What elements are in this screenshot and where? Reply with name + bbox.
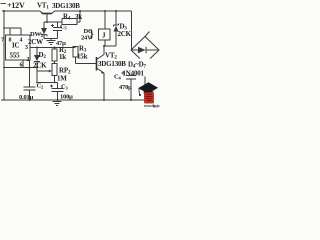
resistor R2 (52, 48, 57, 64)
diode D2 (34, 48, 40, 83)
svg-text:555: 555 (10, 52, 21, 60)
svg-text:C3: C3 (61, 84, 69, 91)
bridge rectifier D4-D7 (131, 32, 159, 101)
svg-text:2CK: 2CK (33, 62, 47, 70)
wire to pins 8 4 (4, 28, 21, 35)
diode D3 (114, 11, 119, 46)
svg-text:IC: IC (12, 42, 20, 50)
wire rail corner to bridge (131, 11, 133, 50)
svg-text:2CK: 2CK (118, 30, 132, 38)
svg-text:3DG130B: 3DG130B (98, 60, 126, 68)
svg-text:3DG130B: 3DG130B (52, 2, 80, 10)
wire top rail left (2, 10, 40, 12)
ground (44, 39, 58, 45)
wire trigger node (4, 67, 37, 69)
wire pin3 output (30, 47, 76, 49)
ground under C3 (53, 102, 62, 106)
transistor VT2 (97, 46, 105, 100)
capacitor C2 (24, 68, 36, 101)
wire pins 2 6 stubs (23, 60, 30, 68)
potentiometer RP2 (37, 64, 57, 83)
resistor R4 (62, 11, 80, 25)
wire relay to collector (104, 45, 116, 47)
wire timing bottom node (37, 82, 58, 84)
resistor R3 (73, 47, 96, 64)
svg-text:4: 4 (20, 38, 23, 44)
capacitor C3 (50, 83, 64, 101)
svg-text:C4: C4 (114, 74, 122, 81)
svg-text:+12V: +12V (7, 1, 25, 10)
svg-text:470μ: 470μ (119, 84, 132, 91)
relay J (99, 11, 111, 46)
svg-text:1k: 1k (59, 53, 66, 61)
svg-text:3: 3 (25, 45, 28, 51)
svg-text:1M: 1M (57, 75, 67, 83)
svg-text:7: 7 (1, 38, 4, 44)
node +12V output arrow (1, 3, 7, 5)
label D4~D7 (128, 59, 157, 77)
watermark logo graduation cap (138, 82, 164, 108)
wire top rail right (55, 10, 132, 12)
op-amp IC 555 timer box (6, 35, 31, 60)
transistor VT1 (40, 11, 56, 22)
svg-text:3k: 3k (75, 13, 82, 21)
wire bottom rail (1, 99, 145, 101)
svg-text:www.dgzj.com: www.dgzj.com (144, 104, 160, 108)
svg-text:15k: 15k (77, 53, 88, 61)
svg-text:}: } (90, 29, 94, 41)
svg-text:1N4001: 1N4001 (123, 70, 145, 78)
capacitor C4 (122, 72, 137, 101)
wire left supply column (3, 11, 5, 100)
capacitor C5 (51, 22, 62, 39)
zener diode DW (41, 22, 47, 39)
svg-text:C2: C2 (37, 83, 45, 90)
svg-text:DW2: DW2 (30, 31, 44, 38)
svg-text:100μ: 100μ (60, 94, 73, 101)
wire VT1 base node (44, 21, 62, 23)
